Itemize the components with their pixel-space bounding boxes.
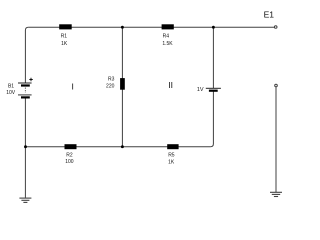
svg-text:I: I (72, 81, 74, 91)
terminal E1 open circle (274, 26, 277, 29)
battery B1 plus sign (29, 78, 33, 82)
battery B1 cell 1 long plate (18, 82, 32, 84)
ground symbol (left) (19, 198, 31, 202)
ground symbol (right) (270, 192, 282, 196)
wire: right branch from top junction down to 1V battery (212, 27, 214, 88)
svg-text:R3: R3 (108, 77, 115, 83)
wire: left branch from B1 up to top-left corner (25, 27, 28, 82)
svg-text:1V: 1V (197, 87, 204, 93)
wire: 1V battery to bottom-right corner (210, 91, 213, 147)
svg-text:1K: 1K (61, 41, 68, 47)
battery V1 (1V) long plate (206, 87, 221, 89)
resistor R5 body (167, 144, 178, 149)
battery B1 dotted cell link (24, 88, 26, 93)
wire: reference terminal down to ground (275, 87, 277, 192)
resistor R3 body (vertical) (120, 78, 125, 90)
battery V1 (1V) short plate (209, 90, 218, 92)
wire: bottom net (26, 146, 211, 148)
terminal open circle (right reference) (275, 84, 278, 87)
junction dot at bottom-left node (B1/R2/ground) (24, 145, 27, 148)
svg-text:R2: R2 (66, 152, 73, 158)
resistor R4 body (162, 24, 174, 29)
svg-text:R4: R4 (163, 34, 170, 40)
svg-text:R5: R5 (168, 153, 175, 159)
svg-text:E1: E1 (264, 10, 275, 20)
svg-text:100: 100 (65, 159, 74, 165)
junction dot at node B (R3 bottom/R2/R5) (121, 145, 124, 148)
wire: left branch from B1 down to ground (24, 98, 26, 198)
svg-text:1.5K: 1.5K (162, 41, 173, 47)
svg-text:10V: 10V (6, 90, 16, 96)
svg-text:II: II (168, 80, 173, 90)
svg-text:1K: 1K (168, 159, 175, 165)
svg-text:220: 220 (106, 83, 115, 89)
junction dot at top-right node (R4/1V/E1) (212, 26, 215, 29)
battery B1 cell 2 short plate (21, 96, 30, 98)
resistor R2 body (65, 144, 77, 149)
junction dot at node A (R1/R4/R3 top) (121, 26, 124, 29)
resistor R1 body (59, 24, 71, 29)
svg-text:R1: R1 (61, 34, 68, 40)
battery B1 cell 2 long plate (18, 94, 32, 96)
wire: middle branch (node A to node B through R3) (121, 27, 123, 147)
svg-text:B1: B1 (8, 84, 14, 90)
battery B1 cell 1 short plate (21, 84, 30, 86)
wire: top net from corner to E1 terminal (28, 26, 274, 28)
